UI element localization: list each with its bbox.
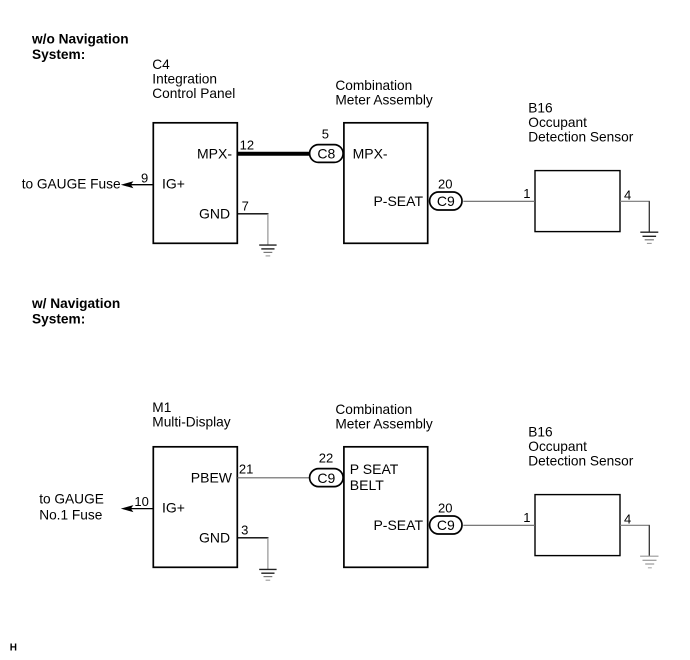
svg-text:Meter Assembly: Meter Assembly — [335, 92, 433, 107]
svg-text:Occupant: Occupant — [528, 439, 587, 454]
svg-text:No.1 Fuse: No.1 Fuse — [39, 507, 102, 522]
svg-text:B16: B16 — [528, 424, 553, 439]
svg-text:GND: GND — [199, 530, 230, 546]
svg-text:C8: C8 — [317, 146, 335, 162]
svg-text:to GAUGE Fuse: to GAUGE Fuse — [22, 177, 121, 192]
svg-text:M1: M1 — [152, 400, 171, 415]
svg-text:w/ Navigation: w/ Navigation — [31, 296, 120, 311]
svg-text:12: 12 — [240, 137, 254, 152]
box U3 B16 Occupant Detection Sensor (top) — [535, 171, 620, 232]
svg-text:C4: C4 — [152, 57, 170, 72]
svg-text:3: 3 — [241, 522, 248, 537]
svg-text:10: 10 — [134, 494, 148, 509]
svg-text:to GAUGE: to GAUGE — [39, 492, 104, 507]
ground symbol (right of B16 bottom) — [640, 556, 658, 568]
svg-text:BELT: BELT — [350, 477, 384, 493]
svg-text:MPX-: MPX- — [197, 146, 232, 162]
svg-text:PBEW: PBEW — [191, 470, 233, 486]
svg-text:C9: C9 — [437, 517, 455, 533]
svg-text:System:: System: — [32, 47, 85, 62]
wire GND (C4 pin7) horizontal — [237, 213, 268, 215]
svg-text:MPX-: MPX- — [353, 146, 388, 162]
box U5 Combination Meter Assembly (bottom) — [344, 447, 428, 568]
svg-text:B16: B16 — [528, 100, 553, 115]
svg-text:Detection Sensor: Detection Sensor — [528, 454, 633, 469]
svg-text:20: 20 — [438, 177, 452, 192]
svg-text:Meter Assembly: Meter Assembly — [335, 416, 433, 431]
svg-text:IG+: IG+ — [162, 176, 185, 192]
svg-text:P-SEAT: P-SEAT — [373, 193, 423, 209]
svg-text:1: 1 — [523, 510, 530, 525]
svg-text:IG+: IG+ — [162, 500, 185, 516]
box U4 M1 Multi-Display — [153, 447, 237, 568]
arrowhead to GAUGE No.1 Fuse (bottom) — [121, 505, 134, 512]
wire IG+ with arrow to GAUGE fuse — [131, 184, 153, 186]
box U2 Combination Meter Assembly (top) — [344, 123, 428, 244]
svg-text:w/o Navigation: w/o Navigation — [31, 31, 129, 46]
connector C8 — [310, 145, 344, 163]
wire GND vertical down (bottom) — [267, 538, 269, 570]
box U1 C4 Integration Control Panel — [153, 123, 237, 244]
wire C9 to B16 pin1 (top) — [463, 200, 535, 202]
svg-text:20: 20 — [438, 501, 452, 516]
svg-text:4: 4 — [624, 511, 631, 526]
svg-text:4: 4 — [624, 187, 631, 202]
arrowhead to GAUGE Fuse (top) — [121, 181, 134, 188]
svg-text:1: 1 — [523, 186, 530, 201]
svg-text:Control Panel: Control Panel — [152, 86, 235, 101]
wire B16 pin4 to ground (top) — [620, 200, 650, 202]
svg-text:Detection Sensor: Detection Sensor — [528, 130, 633, 145]
svg-text:Combination: Combination — [335, 402, 412, 417]
wire GND vertical down — [267, 214, 269, 245]
connector C9 (top) — [430, 192, 462, 210]
svg-text:9: 9 — [141, 170, 148, 185]
ground symbol (below C4 GND) — [259, 245, 276, 256]
svg-text:5: 5 — [322, 126, 329, 141]
svg-text:Integration: Integration — [152, 72, 217, 87]
svg-text:21: 21 — [239, 461, 253, 476]
wire B16 pin4 to ground (bottom) — [620, 524, 650, 526]
svg-text:C9: C9 — [437, 193, 455, 209]
svg-text:P SEAT: P SEAT — [350, 461, 399, 477]
ground symbol (right of B16 top) — [640, 232, 658, 243]
svg-text:7: 7 — [242, 199, 249, 214]
wire MPX- thick (C4 pin12 to C8) — [237, 152, 310, 156]
svg-text:GND: GND — [199, 206, 230, 222]
connector C9 (bottom-right) — [430, 516, 462, 534]
svg-text:22: 22 — [319, 451, 333, 466]
ground symbol (below M1 GND) — [259, 569, 276, 580]
svg-text:P-SEAT: P-SEAT — [373, 517, 423, 533]
box U6 B16 Occupant Detection Sensor (bottom) — [535, 495, 620, 556]
svg-text:Combination: Combination — [335, 78, 412, 93]
wire IG+ with arrow to GAUGE No.1 fuse — [131, 508, 153, 510]
wire C9 to B16 pin1 (bottom) — [463, 524, 535, 526]
svg-text:Multi-Display: Multi-Display — [152, 415, 230, 430]
svg-text:C9: C9 — [317, 470, 335, 486]
connector C9 (bottom-left) — [310, 469, 344, 487]
svg-text:Occupant: Occupant — [528, 115, 587, 130]
wire PBEW (M1 pin21 to C9) — [237, 477, 309, 479]
svg-text:H: H — [10, 642, 17, 653]
svg-text:System:: System: — [32, 311, 85, 326]
wire GND (M1 pin3) horizontal — [237, 537, 268, 539]
